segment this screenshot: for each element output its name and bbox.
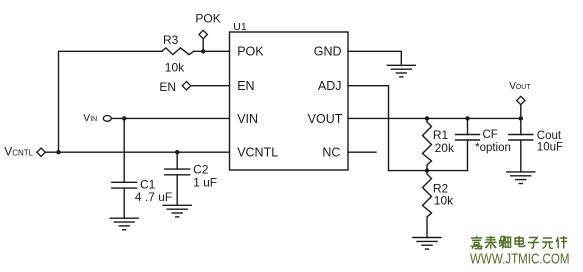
svg-text:10k: 10k bbox=[434, 194, 454, 208]
capacitor Cout bbox=[509, 118, 533, 171]
wire bbox=[194, 50, 230, 52]
svg-text:CF: CF bbox=[483, 129, 498, 141]
node VCNTL-rail junction bbox=[56, 150, 60, 154]
svg-text:ADJ: ADJ bbox=[318, 79, 342, 93]
resistor R3 bbox=[162, 48, 194, 55]
wire bbox=[348, 151, 376, 153]
svg-text:WWW.JTMIC.COM: WWW.JTMIC.COM bbox=[470, 252, 570, 268]
ground Cout bbox=[507, 172, 535, 184]
terminal VCNTL bbox=[37, 148, 45, 156]
ground C1 bbox=[110, 218, 138, 230]
svg-text:R1: R1 bbox=[433, 128, 449, 142]
svg-text:VCNTL: VCNTL bbox=[4, 145, 33, 159]
svg-text:VIN: VIN bbox=[237, 112, 258, 126]
capacitor CF bbox=[456, 118, 480, 170]
svg-text:VIN: VIN bbox=[83, 112, 97, 124]
wire bbox=[111, 117, 229, 119]
resistor R2 bbox=[423, 171, 432, 238]
node POK junction bbox=[201, 49, 205, 53]
ground C2 bbox=[163, 205, 191, 217]
ground GND bbox=[387, 65, 415, 77]
capacitor C1 bbox=[112, 118, 137, 218]
svg-text:VOUT: VOUT bbox=[308, 112, 343, 126]
svg-text:4 .7 uF: 4 .7 uF bbox=[135, 190, 172, 204]
wire bbox=[59, 51, 163, 152]
wire bbox=[520, 105, 522, 119]
wire bbox=[348, 86, 468, 171]
op-amp U1 bbox=[230, 32, 349, 170]
wire bbox=[348, 51, 401, 65]
wire bbox=[348, 117, 521, 119]
svg-text:POK: POK bbox=[195, 11, 220, 25]
svg-text:VCNTL: VCNTL bbox=[237, 145, 278, 159]
resistor R1 bbox=[423, 118, 432, 170]
svg-text:POK: POK bbox=[237, 45, 264, 59]
node R1 top junction bbox=[425, 116, 429, 120]
terminal VOUT bbox=[517, 96, 525, 104]
svg-text:GND: GND bbox=[314, 45, 342, 59]
svg-text:*option: *option bbox=[475, 142, 511, 154]
svg-text:20k: 20k bbox=[435, 141, 455, 155]
svg-text:C1: C1 bbox=[140, 177, 156, 191]
svg-text:EN: EN bbox=[159, 80, 176, 94]
svg-text:R3: R3 bbox=[163, 33, 179, 47]
svg-text:Cout: Cout bbox=[537, 130, 562, 142]
wire bbox=[45, 151, 229, 153]
svg-text:10k: 10k bbox=[165, 61, 185, 75]
svg-text:VOUT: VOUT bbox=[509, 81, 531, 92]
capacitor C2 bbox=[165, 152, 190, 205]
svg-text:NC: NC bbox=[322, 145, 340, 159]
svg-text:EN: EN bbox=[237, 79, 254, 93]
node VIN-C1 junction bbox=[122, 116, 126, 120]
node CF top junction bbox=[465, 116, 469, 120]
wire bbox=[202, 39, 204, 52]
node R1-R2 junction bbox=[425, 168, 429, 172]
svg-text:10uF: 10uF bbox=[537, 141, 563, 153]
svg-text:U1: U1 bbox=[233, 21, 247, 33]
watermark chinese text bbox=[471, 236, 568, 249]
svg-text:1 uF: 1 uF bbox=[193, 175, 217, 189]
terminal EN bbox=[182, 82, 190, 90]
wire bbox=[191, 85, 230, 87]
terminal VIN bbox=[103, 116, 111, 122]
ground R2 bbox=[413, 238, 441, 250]
node VOUT junction bbox=[519, 116, 523, 120]
terminal POK bbox=[199, 30, 207, 38]
node VCNTL-C2 junction bbox=[175, 150, 179, 154]
